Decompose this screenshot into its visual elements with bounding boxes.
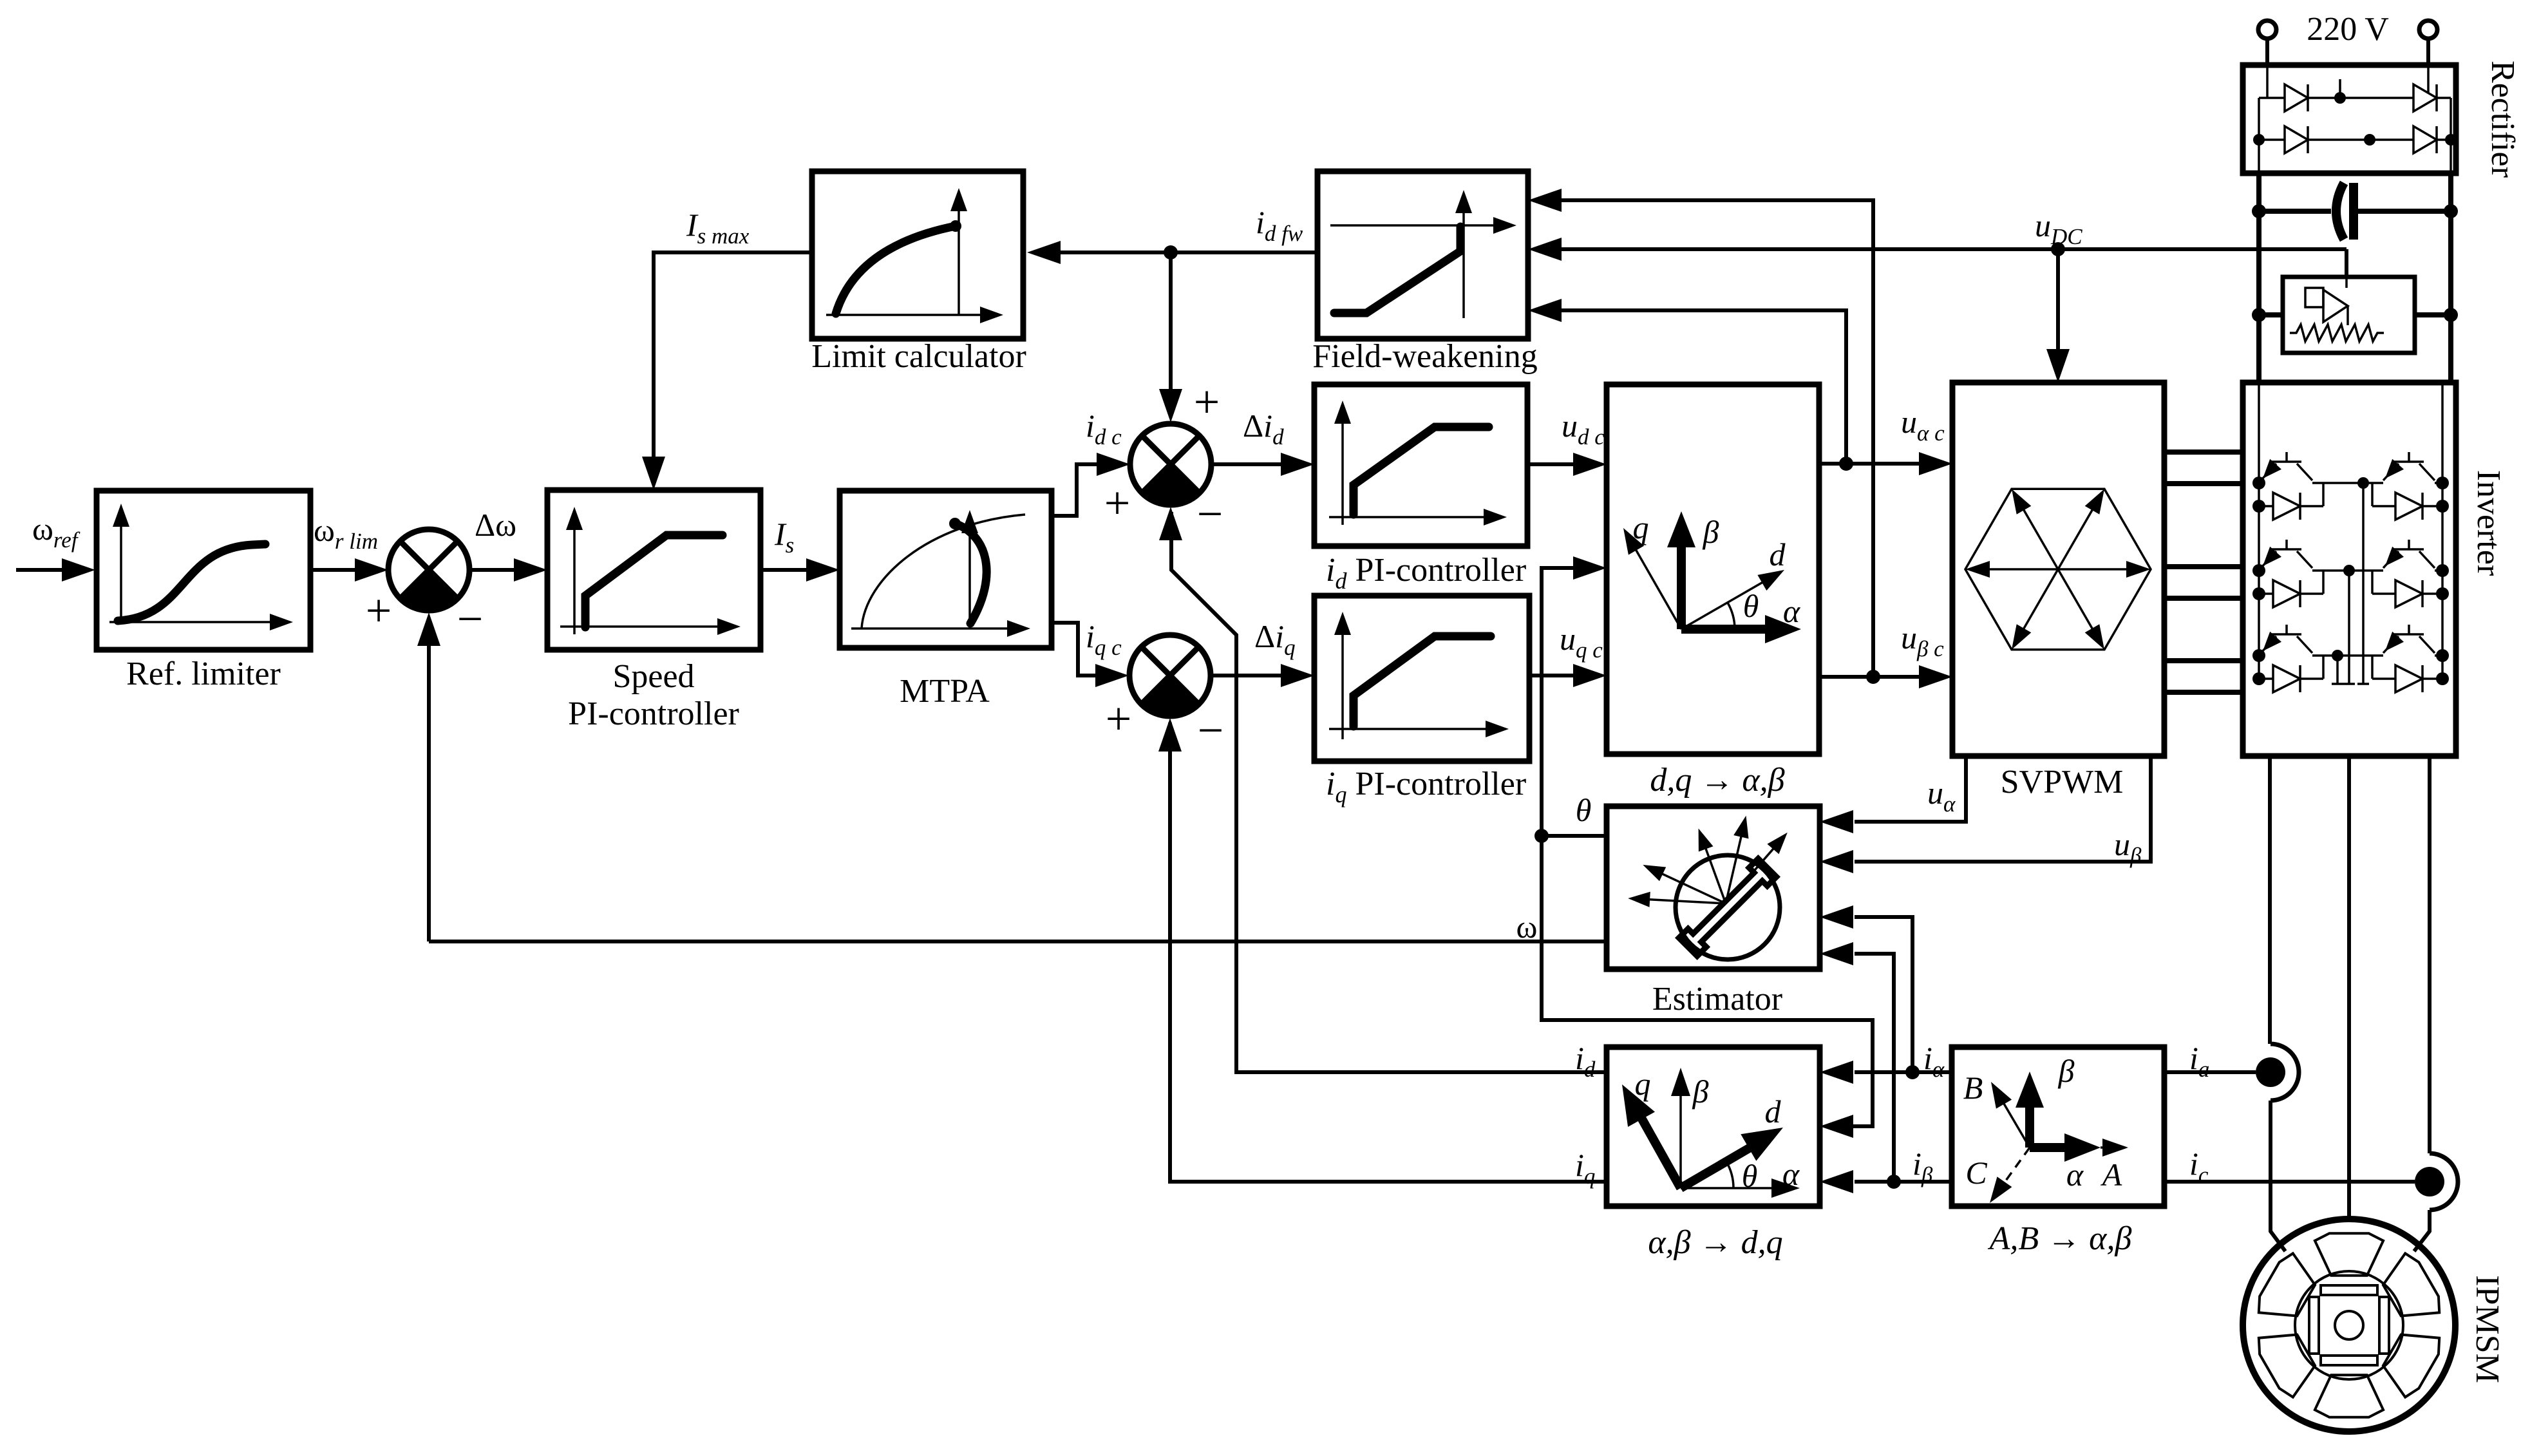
junction dot cap right: [2444, 204, 2458, 218]
dq2ab alpha axis bold: [1681, 625, 1768, 634]
svg-text:−: −: [1198, 704, 1224, 756]
wire Is_max LimitCalc to SpeedPI top: [654, 252, 812, 460]
wire i_dfw FieldWeakening to LimitCalc: [1059, 251, 1317, 254]
inverter IGBT A low side: [2383, 452, 2435, 480]
svg-text:Speed: Speed: [612, 658, 694, 695]
inverter phase drop B: [2348, 571, 2350, 684]
svg-text:220 V: 220 V: [2307, 11, 2389, 48]
Speed PI curve: [585, 535, 722, 627]
rectifier bridge internals: [2253, 65, 2457, 171]
inverter phase wire B: [2349, 569, 2383, 572]
ab3 beta axis bold: [2025, 1095, 2034, 1148]
svg-text:Δω: Δω: [475, 507, 516, 543]
motor IPMSM outer circle: [2243, 1219, 2455, 1432]
svg-text:SVPWM: SVPWM: [2001, 764, 2124, 800]
junction dot i_alpha: [1905, 1065, 1920, 1079]
svg-text:Inverter: Inverter: [2470, 470, 2507, 576]
svg-text:+: +: [1194, 376, 1220, 428]
svg-text:Field-weakening: Field-weakening: [1312, 338, 1537, 375]
wire i_q feedback from ab2dq to sum3 minus: [1170, 723, 1607, 1182]
svg-text:β: β: [1692, 1073, 1709, 1110]
wire theta up branch to dq2ab: [1542, 568, 1573, 836]
junction dot theta: [1534, 829, 1549, 843]
Speed PI graph axes: [560, 507, 741, 635]
svg-text:iq PI-controller: iq PI-controller: [1326, 766, 1526, 808]
dq2ab d axis thin: [1681, 578, 1770, 629]
estimator rotor I-beam: [1679, 858, 1776, 956]
svg-text:Rectifier: Rectifier: [2484, 61, 2521, 178]
Field-weakening curve: [1334, 227, 1460, 313]
junction dot i_dfw branch: [1164, 245, 1178, 260]
wire phase C inverter to motor: [2428, 756, 2431, 1153]
MTPA current limit arc thin: [862, 515, 1025, 629]
svg-text:B: B: [1963, 1070, 1983, 1106]
svg-text:MTPA: MTPA: [900, 673, 990, 710]
id PI curve: [1354, 427, 1489, 515]
ab2dq alpha axis thin: [1681, 1187, 1777, 1189]
wire i_d feedback from ab2dq to sum2 minus: [1171, 512, 1607, 1072]
svg-text:+: +: [366, 585, 392, 636]
svg-text:d: d: [1765, 1093, 1782, 1130]
svg-text:d: d: [1770, 536, 1786, 572]
wire omega_ref input: [16, 568, 64, 572]
inverter internal rails: [2259, 383, 2442, 680]
MTPA trajectory curve thick: [955, 524, 987, 623]
svg-text:α: α: [1782, 1156, 1800, 1192]
svg-text:+: +: [1106, 693, 1132, 744]
inverter phase node dot B: [2343, 565, 2355, 576]
ab3 C axis dashed: [1999, 1148, 2030, 1189]
svg-text:PI-controller: PI-controller: [568, 695, 739, 732]
current sensor phase A dot: [2256, 1057, 2285, 1087]
chopper internals comparator and resistor: [2290, 277, 2384, 341]
id PI graph axes: [1329, 401, 1507, 525]
wire i_dfw branch down to sum2: [1169, 252, 1173, 393]
dq2ab q axis thin: [1633, 545, 1681, 629]
inverter phase wire A: [2363, 482, 2383, 484]
dq2ab axes group: [1623, 509, 1801, 643]
wire i_alpha branch to estimator: [1855, 917, 1912, 1072]
wire u_qc iqPI to dq2ab: [1529, 674, 1573, 677]
ab2dq axes group: [1622, 1066, 1800, 1198]
summing junction iq error: [1129, 635, 1211, 716]
summing junction id error: [1130, 424, 1211, 505]
svg-text:Ref. limiter: Ref. limiter: [126, 656, 281, 692]
svg-text:q: q: [1635, 1066, 1651, 1102]
inverter IGBT C high side: [2261, 625, 2312, 653]
inverter diode lead join A left: [2317, 482, 2363, 484]
svg-text:ω: ω: [1516, 909, 1538, 945]
current sensor phase A arc: [2271, 1044, 2299, 1101]
wire u_beta_c feedback up to field-weakening: [1562, 200, 1873, 677]
MTPA graph axes: [851, 510, 1030, 637]
svg-text:β: β: [2058, 1053, 2075, 1089]
block Limit calculator: [812, 171, 1023, 339]
junction dot chopper left: [2252, 308, 2266, 322]
ab3 axes group: [1963, 1053, 2128, 1203]
svg-text:IPMSM: IPMSM: [2469, 1275, 2506, 1383]
block alphabeta to dq transform: [1607, 1047, 1820, 1206]
wire i_c sensor to AB block: [2164, 1180, 2415, 1184]
Ref. limiter graph axes: [109, 504, 293, 630]
motor rotor circle: [2295, 1271, 2403, 1379]
wire u_DC line to field-weakening and chopper: [1562, 247, 2346, 251]
block id PI-controller: [1314, 384, 1527, 546]
wire delta_iq sum3 to iqPI: [1211, 674, 1281, 677]
capacitor DC link: [2259, 183, 2451, 240]
block Inverter: [2243, 383, 2456, 756]
wire phase B inverter to motor: [2347, 756, 2351, 1220]
current sensor phase C arc: [2430, 1153, 2458, 1210]
Ref. limiter S-curve: [118, 544, 265, 621]
wire Is SpeedPI to MTPA: [760, 568, 806, 572]
motor magnets: [2309, 1285, 2389, 1365]
ab2dq beta axis thin: [1679, 1082, 1682, 1188]
inverter IGBT C low side: [2383, 625, 2435, 653]
wire i_alpha AB block to ab2dq: [1855, 1070, 1952, 1074]
svg-text:+: +: [1104, 477, 1131, 529]
inverter IGBT B low side: [2383, 540, 2435, 568]
inverter diode lead join B left: [2317, 569, 2349, 572]
Limit calculator sqrt curve: [836, 226, 956, 314]
wire i_qc MTPA to sum3: [1052, 623, 1102, 676]
wire u_beta_c dq2ab to SVPWM: [1819, 675, 1919, 679]
motor stator slots: [2259, 1233, 2439, 1417]
wire u_alpha_c feedback up to field-weakening: [1562, 310, 1846, 464]
Limit calculator graph axes: [826, 188, 1003, 323]
iq PI curve: [1354, 636, 1491, 726]
ab2dq d axis bold: [1681, 1148, 1750, 1188]
svg-text:A,B → α,β: A,B → α,β: [1988, 1220, 2132, 1257]
block Rectifier: [2243, 65, 2456, 173]
wire i_dc MTPA to sum2: [1052, 464, 1103, 516]
inverter IGBT A high side: [2261, 452, 2312, 480]
svg-text:d,q → α,β: d,q → α,β: [1650, 762, 1784, 799]
svg-text:α: α: [2066, 1157, 2084, 1193]
wire DC rail left: [2256, 173, 2261, 383]
svg-text:Limit calculator: Limit calculator: [811, 338, 1026, 375]
svg-text:θ: θ: [1743, 588, 1759, 624]
wire u_DC tap from chopper: [2345, 249, 2348, 277]
block MTPA: [840, 491, 1052, 648]
wire i_beta branch to estimator: [1855, 954, 1894, 1182]
inverter phase node dot C: [2332, 650, 2343, 661]
svg-text:C: C: [1965, 1155, 1987, 1191]
svg-text:id PI-controller: id PI-controller: [1326, 552, 1526, 594]
terminal AC left: [2258, 21, 2276, 39]
block Speed PI-controller: [547, 490, 760, 650]
wire DC rail right: [2448, 173, 2453, 383]
wire phase A inverter to motor: [2268, 756, 2272, 1044]
terminal AC right: [2419, 21, 2437, 39]
wire delta_omega sum1 to SpeedPI: [469, 568, 515, 572]
Field-weakening graph axes: [1330, 190, 1516, 318]
estimator flux arrows: [1628, 816, 1788, 907]
wire u_alpha_c dq2ab to SVPWM: [1819, 462, 1919, 466]
wire u_dc idPI to dq2ab: [1527, 462, 1573, 466]
wire chopper left connection: [2259, 312, 2283, 317]
svg-text:α,β → d,q: α,β → d,q: [1648, 1224, 1782, 1261]
wire omega feedback up into sum1: [427, 644, 431, 941]
wire omega estimator output to left: [429, 940, 1607, 943]
block dq to alphabeta transform: [1607, 384, 1819, 754]
wire theta estimator output to branch dot: [1542, 834, 1607, 838]
wire delta_id sum2 to idPI: [1211, 462, 1281, 466]
motor shaft circle: [2335, 1311, 2363, 1339]
junction dot u_alpha_c: [1839, 457, 1853, 471]
svg-text:θ: θ: [1742, 1158, 1758, 1194]
wire theta down branch to ab2dq: [1542, 836, 1873, 1126]
wire omega_r_lim RefLimiter to sum1: [310, 568, 356, 572]
iq PI graph axes: [1329, 612, 1509, 739]
junction dot i_beta: [1887, 1175, 1901, 1189]
ab2dq theta arc: [1726, 1162, 1733, 1188]
block Estimator: [1607, 806, 1820, 969]
current sensor phase C dot: [2415, 1167, 2444, 1196]
block brake chopper: [2283, 277, 2415, 353]
dq2ab beta axis bold: [1677, 528, 1686, 629]
svg-text:β: β: [1703, 514, 1719, 550]
SVPWM hexagon with vectors: [1965, 489, 2151, 649]
estimator rotor circle: [1676, 855, 1780, 960]
junction dot chopper right: [2444, 308, 2458, 322]
svg-text:A: A: [2101, 1157, 2122, 1193]
block AB to alphabeta transform: [1952, 1047, 2164, 1206]
wire u_alpha SVPWM to estimator: [1855, 756, 1966, 822]
inverter phase drop C: [2336, 656, 2339, 684]
block Field-weakening: [1317, 171, 1528, 339]
wire gate lines SVPWM to inverter: [2164, 449, 2243, 455]
summing junction speed error: [388, 529, 469, 610]
block SVPWM: [1952, 383, 2164, 756]
inverter phase drop A: [2362, 483, 2365, 684]
svg-text:α: α: [1783, 593, 1801, 629]
wire i_a sensor to AB block: [2164, 1070, 2256, 1074]
svg-text:q: q: [1633, 509, 1649, 545]
svg-text:θ: θ: [1576, 792, 1592, 828]
wire u_DC drop to SVPWM top: [2056, 249, 2060, 349]
block iq PI-controller: [1314, 596, 1529, 761]
junction dot cap left: [2252, 204, 2266, 218]
inverter phase wire C: [2337, 654, 2383, 657]
svg-text:−: −: [1197, 488, 1223, 540]
block Ref. limiter: [97, 491, 310, 650]
wire u_beta SVPWM to estimator: [1855, 756, 2151, 862]
junction dot u_DC: [2051, 242, 2065, 256]
inverter diode lead join C left: [2317, 654, 2337, 657]
wire chopper right connection: [2415, 312, 2451, 317]
dq2ab theta arc: [1728, 603, 1735, 629]
wire i_beta AB block to ab2dq: [1855, 1180, 1952, 1184]
junction dot u_beta_c: [1866, 670, 1880, 684]
ab2dq q axis bold: [1638, 1112, 1681, 1188]
inverter IGBT B high side: [2261, 540, 2312, 568]
svg-text:Estimator: Estimator: [1652, 981, 1782, 1017]
svg-text:−: −: [457, 593, 484, 645]
inverter phase node dot A: [2357, 477, 2369, 489]
ab3 B axis thin: [1999, 1096, 2030, 1148]
ab3 alphaA axis bold: [2030, 1143, 2080, 1152]
